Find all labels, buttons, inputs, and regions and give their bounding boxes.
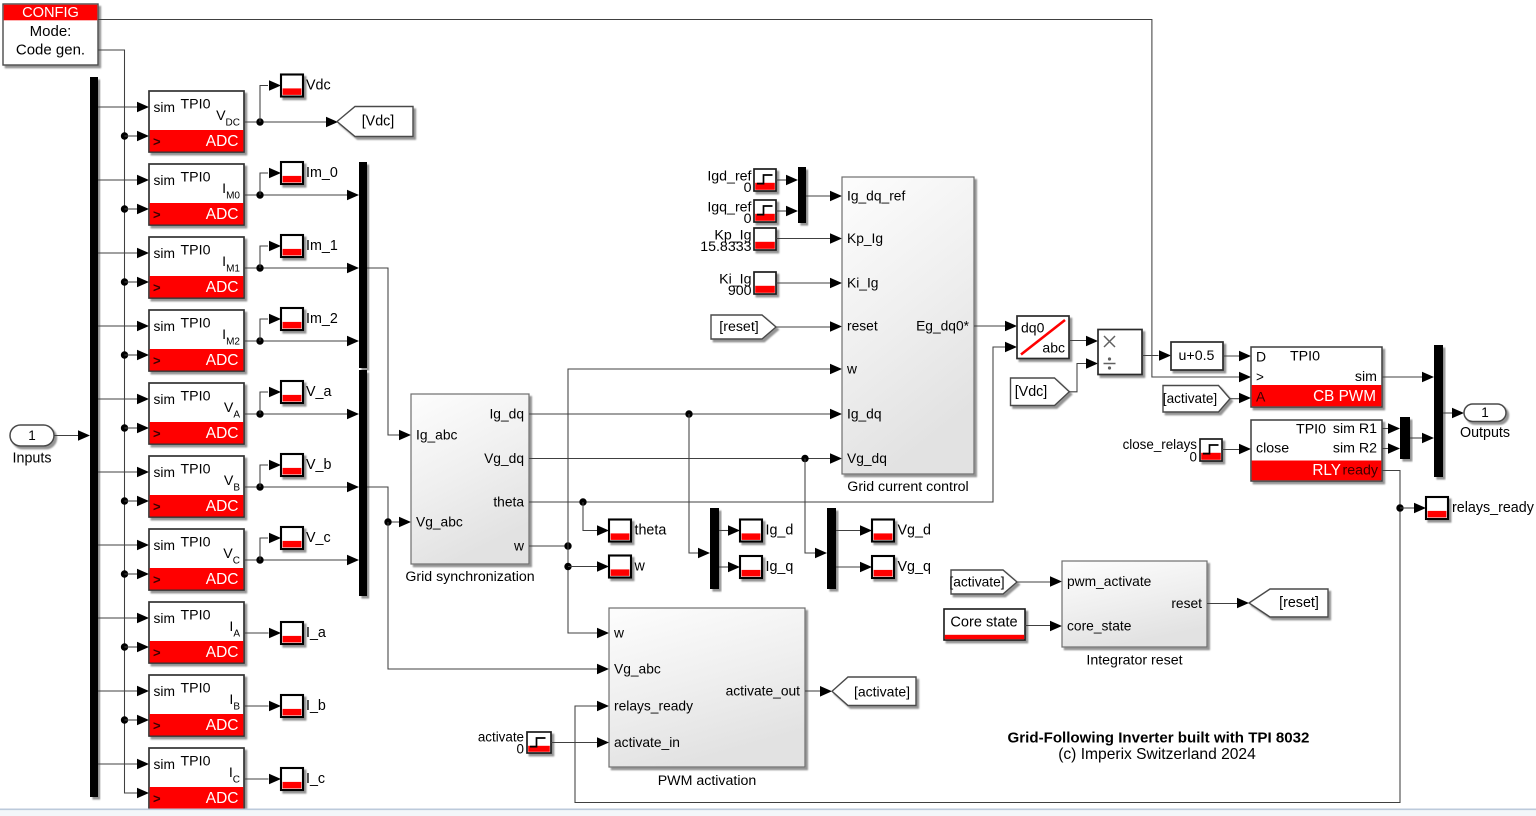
wire CONFIG to CB PWM trigger <box>98 20 1240 378</box>
scope V_a <box>281 381 303 403</box>
goto tag [reset] <box>1249 589 1328 617</box>
junction dot trigger ADC VDC <box>121 132 128 139</box>
bias block u+0.5 <box>1171 342 1223 370</box>
svg-text:Mode:: Mode: <box>30 23 72 40</box>
scope V_b <box>281 454 303 476</box>
svg-text:Ig_abc: Ig_abc <box>416 428 458 443</box>
scope Im_1 <box>281 235 303 257</box>
scope I_b <box>281 695 303 717</box>
svg-text:Code gen.: Code gen. <box>16 42 85 59</box>
wire ADC IA output to scope <box>244 632 269 634</box>
svg-text:Im_1: Im_1 <box>306 238 338 254</box>
constant Kp_Ig <box>754 228 776 250</box>
wire theta to dq0-abc transform <box>529 347 1006 502</box>
svg-text:sim: sim <box>154 100 175 115</box>
wire ready to scope <box>1400 507 1415 509</box>
wire ADC VC output to bus and scope <box>244 559 347 561</box>
svg-text:TPI0: TPI0 <box>1296 422 1326 438</box>
svg-text:[activate]: [activate] <box>854 683 910 699</box>
svg-text:sim: sim <box>154 173 175 188</box>
svg-text:V_c: V_c <box>306 530 331 546</box>
svg-text:[activate]: [activate] <box>949 575 1004 590</box>
wire Ig_dq to Grid current control <box>529 413 831 415</box>
bus creator bar voltages <box>359 370 367 596</box>
svg-text:[reset]: [reset] <box>719 319 758 335</box>
svg-text:ready: ready <box>1343 463 1379 479</box>
wire CB PWM sim to Outputs bus <box>1382 376 1423 378</box>
wire voltages bus to Grid synchronization Vg_abc <box>367 487 400 522</box>
svg-text:Eg_dq0*: Eg_dq0* <box>916 319 970 334</box>
svg-text:Vg_q: Vg_q <box>898 559 931 575</box>
scope Vdc <box>281 75 303 97</box>
step block close_relays <box>1200 439 1222 461</box>
svg-text:>: > <box>153 718 161 733</box>
svg-text:>: > <box>153 572 161 587</box>
RLY block <box>1251 420 1382 481</box>
step block Igq_ref <box>754 200 776 222</box>
wire close_relays to RLY <box>1222 449 1240 451</box>
svg-text:sim: sim <box>154 465 175 480</box>
svg-text:ADC: ADC <box>206 133 239 150</box>
svg-text:>: > <box>153 499 161 514</box>
junction dot trigger ADC IA <box>121 643 128 650</box>
svg-text:ADC: ADC <box>206 717 239 734</box>
wire bus to ADC IM0 sim input <box>98 179 139 181</box>
ADC block IC <box>149 748 244 809</box>
svg-text:TPI0: TPI0 <box>181 681 211 697</box>
svg-text:Outputs: Outputs <box>1460 425 1510 441</box>
scope relays_ready <box>1426 497 1448 519</box>
scope w <box>609 556 631 578</box>
svg-text:RLY: RLY <box>1312 462 1341 479</box>
scope Ig_d <box>740 520 762 542</box>
svg-text:I_a: I_a <box>306 625 326 641</box>
wire RLY ready to scope and PWM activation <box>575 471 1400 803</box>
svg-text:Grid-Following Inverter built: Grid-Following Inverter built with TPI 8… <box>1008 730 1310 747</box>
wire ADC IB output to scope <box>244 705 269 707</box>
svg-text:sim: sim <box>154 684 175 699</box>
svg-text:Im_2: Im_2 <box>306 311 338 327</box>
bottom status strip <box>0 810 1536 816</box>
wire bus to ADC VA sim input <box>98 398 139 400</box>
svg-text:0: 0 <box>744 180 752 196</box>
svg-text:sim: sim <box>154 319 175 334</box>
ADC block IB <box>149 675 244 736</box>
svg-text:Ki_Ig: Ki_Ig <box>847 276 878 291</box>
wire Vg_d to scope <box>836 530 861 532</box>
subsystem PWM activation <box>609 608 805 767</box>
wire ADC IM0 output to bus and scope <box>244 194 347 196</box>
svg-text:0: 0 <box>1190 450 1197 465</box>
junction dot w main <box>564 542 571 549</box>
scope I_a <box>281 622 303 644</box>
from tag [activate] for CB PWM <box>1163 386 1230 413</box>
svg-text:V_a: V_a <box>306 384 331 400</box>
junction dot trigger ADC IM0 <box>121 205 128 212</box>
wire relay bus to Outputs bus <box>1410 437 1423 439</box>
subsystem Integrator reset <box>1062 561 1207 647</box>
product block multiply-divide <box>1098 330 1142 375</box>
wire bus to ADC IC sim input <box>98 763 139 765</box>
svg-text:PWM activation: PWM activation <box>658 773 757 789</box>
wire bus to ADC IM1 sim input <box>98 252 139 254</box>
svg-text:TPI0: TPI0 <box>181 535 211 551</box>
svg-text:>: > <box>153 134 161 149</box>
wire activate to PWM activation <box>551 742 598 744</box>
wire Vg_dq branch to selector <box>805 459 816 554</box>
junction dot trigger ADC IB <box>121 716 128 723</box>
svg-text:sim: sim <box>154 538 175 553</box>
svg-text:sim: sim <box>154 611 175 626</box>
junction dot trigger ADC IM1 <box>121 278 128 285</box>
svg-text:relays_ready: relays_ready <box>614 699 693 714</box>
svg-text:Vg_dq: Vg_dq <box>847 451 887 466</box>
svg-text:>: > <box>153 426 161 441</box>
CB PWM block <box>1251 347 1382 407</box>
svg-text:Vg_dq: Vg_dq <box>484 451 524 466</box>
wire Ig_d to scope <box>719 530 729 532</box>
ADC block VB <box>149 456 244 517</box>
svg-text:(c) Imperix Switzerland 2024: (c) Imperix Switzerland 2024 <box>1058 746 1256 763</box>
goto tag [Vdc] <box>337 107 413 137</box>
svg-text:activate_out: activate_out <box>726 684 801 699</box>
wire dq0-abc to product <box>1069 340 1087 342</box>
svg-text:[Vdc]: [Vdc] <box>1015 384 1048 400</box>
svg-text:ADC: ADC <box>206 571 239 588</box>
subsystem Grid current control <box>842 177 974 474</box>
junction dot trigger ADC IM2 <box>121 351 128 358</box>
svg-text:Core state: Core state <box>950 615 1017 631</box>
bus selector bar Vg <box>827 508 836 589</box>
output port 1 Outputs <box>1464 404 1506 422</box>
wire reset to goto tag <box>1207 603 1238 605</box>
junction dot theta <box>579 498 586 505</box>
wire w to Grid current control <box>568 369 831 546</box>
svg-text:sim R2: sim R2 <box>1333 441 1377 457</box>
svg-text:CONFIG: CONFIG <box>22 5 79 21</box>
svg-text:Vg_d: Vg_d <box>898 523 931 539</box>
svg-text:TPI0: TPI0 <box>181 608 211 624</box>
input port 1 Inputs <box>10 425 54 446</box>
wire bus to ADC VC sim input <box>98 544 139 546</box>
bus creator bar relays <box>1400 417 1410 459</box>
svg-text:Vg_abc: Vg_abc <box>614 662 661 677</box>
wire Ig_dq branch to selector <box>689 414 699 553</box>
svg-text:close_relays: close_relays <box>1123 437 1198 452</box>
svg-text:Kp_Ig: Kp_Ig <box>847 231 883 246</box>
svg-text:Inputs: Inputs <box>13 451 52 467</box>
wire Ig_q to scope <box>719 566 729 568</box>
svg-text:>: > <box>1256 370 1264 385</box>
wire bus to ADC IM2 sim input <box>98 325 139 327</box>
svg-text:u+0.5: u+0.5 <box>1179 348 1215 364</box>
scope Vg_d <box>872 520 894 542</box>
ADC block VA <box>149 383 244 444</box>
svg-text:Grid synchronization: Grid synchronization <box>405 569 534 585</box>
svg-text:Ig_q: Ig_q <box>766 559 794 575</box>
wire sim R2 to relay bus <box>1382 448 1389 450</box>
bus creator bar Ig_dq_ref <box>798 167 806 223</box>
svg-text:w: w <box>634 559 646 575</box>
wire activate_out to goto tag <box>805 690 821 692</box>
wire ADC V_DC output to goto tag and scope <box>244 121 327 123</box>
CONFIG block <box>3 4 98 65</box>
wire Kp_Ig to Grid current control <box>776 238 831 240</box>
wire Vg_abc branch to PWM activation <box>388 522 598 669</box>
bus creator bar Outputs <box>1434 345 1443 477</box>
svg-text:w: w <box>513 539 524 554</box>
svg-text:sim: sim <box>1355 369 1377 385</box>
svg-text:TPI0: TPI0 <box>181 170 211 186</box>
from tag [Vdc] <box>1011 378 1070 406</box>
ADC block IM0 <box>149 164 244 225</box>
svg-text:ADC: ADC <box>206 352 239 369</box>
svg-text:ADC: ADC <box>206 279 239 296</box>
svg-text:D: D <box>1256 349 1266 365</box>
svg-text:[activate]: [activate] <box>1163 391 1217 406</box>
ADC block VDC <box>149 91 244 152</box>
svg-text:TPI0: TPI0 <box>1290 349 1320 365</box>
svg-text:Ig_dq: Ig_dq <box>489 407 524 422</box>
bus creator bar currents <box>359 162 367 368</box>
svg-text:TPI0: TPI0 <box>181 97 211 113</box>
junction dot trigger ADC VA <box>121 424 128 431</box>
svg-text:core_state: core_state <box>1067 619 1132 634</box>
ADC block IA <box>149 602 244 663</box>
svg-text:ADC: ADC <box>206 790 239 807</box>
svg-text:reset: reset <box>1171 596 1202 611</box>
wire ADC VB output to bus and scope <box>244 486 347 488</box>
svg-text:>: > <box>153 280 161 295</box>
junction dot Vg_dq <box>801 455 808 462</box>
wire Vg_dq to Grid current control <box>529 458 831 460</box>
scope Im_2 <box>281 308 303 330</box>
wire reset to Grid current control <box>776 326 831 328</box>
junction dot ready <box>1396 504 1403 511</box>
svg-text:I_b: I_b <box>306 698 326 714</box>
wire CONFIG to ADC trigger trunk <box>98 50 138 793</box>
svg-text:abc: abc <box>1042 340 1065 356</box>
svg-text:Im_0: Im_0 <box>306 165 338 181</box>
svg-text:TPI0: TPI0 <box>181 316 211 332</box>
svg-text:Ig_dq_ref: Ig_dq_ref <box>847 189 905 204</box>
svg-text:theta: theta <box>493 495 524 510</box>
svg-text:relays_ready: relays_ready <box>1452 500 1535 516</box>
svg-text:TPI0: TPI0 <box>181 754 211 770</box>
svg-text:w: w <box>846 362 857 377</box>
wire activate to pwm_activate <box>1017 581 1051 583</box>
junction dot trigger ADC VC <box>121 570 128 577</box>
svg-text:Integrator reset: Integrator reset <box>1086 653 1182 669</box>
svg-text:ADC: ADC <box>206 644 239 661</box>
svg-text:Ig_dq: Ig_dq <box>847 407 882 422</box>
svg-text:Vdc: Vdc <box>306 78 331 94</box>
svg-text:Ig_d: Ig_d <box>766 523 794 539</box>
junction dot Ig_dq <box>685 410 692 417</box>
svg-text:1: 1 <box>1481 405 1489 420</box>
wire product to u+0.5 <box>1142 355 1159 357</box>
svg-text:ADC: ADC <box>206 206 239 223</box>
wire bus to ADC VB sim input <box>98 471 139 473</box>
svg-text:ADC: ADC <box>206 498 239 515</box>
svg-text:900: 900 <box>728 283 752 299</box>
wire u+0.5 to CB PWM D <box>1223 355 1240 357</box>
scope Ig_q <box>740 556 762 578</box>
svg-text:A: A <box>1256 389 1266 405</box>
subsystem Grid synchronization <box>411 394 529 564</box>
step block Igd_ref <box>754 169 776 191</box>
wire bus to ADC IB sim input <box>98 690 139 692</box>
svg-text:close: close <box>1256 441 1289 457</box>
scope Vg_q <box>872 556 894 578</box>
wire sim R1 to relay bus <box>1382 428 1389 430</box>
svg-text:V_b: V_b <box>306 457 331 473</box>
svg-text:TPI0: TPI0 <box>181 389 211 405</box>
scope V_c <box>281 527 303 549</box>
transform block dq0-abc <box>1017 316 1069 359</box>
wire bus to ADC VDC sim input <box>98 106 139 108</box>
svg-text:I_c: I_c <box>306 771 325 787</box>
wire activate to CB PWM A <box>1230 398 1240 400</box>
wire theta branch to scope <box>583 502 598 531</box>
from tag [activate] for Integrator reset <box>951 570 1017 594</box>
bus selector bar (Inputs) <box>90 77 98 797</box>
wire ADC IM2 output to bus and scope <box>244 340 347 342</box>
wire ADC VA output to bus and scope <box>244 413 347 415</box>
junction dot Vg_abc <box>384 518 391 525</box>
wire Ig_dq_ref to Grid current control <box>806 195 831 197</box>
from tag [reset] <box>711 315 776 339</box>
constant Ki_Ig <box>754 272 776 294</box>
ADC block VC <box>149 529 244 590</box>
wire Vdc to product divide input <box>1069 364 1086 392</box>
svg-text:w: w <box>613 626 624 641</box>
svg-text:theta: theta <box>635 523 667 539</box>
svg-text:0: 0 <box>744 211 752 227</box>
wire w output <box>529 545 568 547</box>
wire bus to Outputs port <box>1443 412 1453 414</box>
wire Igq_ref to bus <box>776 210 787 212</box>
svg-text:>: > <box>153 791 161 806</box>
step block activate <box>527 732 551 753</box>
wire Ki_Ig to Grid current control <box>776 282 831 284</box>
svg-text:0: 0 <box>517 742 524 757</box>
ADC block IM1 <box>149 237 244 298</box>
svg-text:>: > <box>153 645 161 660</box>
svg-text:>: > <box>153 353 161 368</box>
svg-text:reset: reset <box>847 319 878 334</box>
svg-text:sim: sim <box>154 246 175 261</box>
goto tag [activate] <box>832 677 916 706</box>
bus selector bar Ig <box>710 508 719 589</box>
scope Im_0 <box>281 162 303 184</box>
wire Inputs to bus selector <box>54 435 79 437</box>
wire currents bus to Grid synchronization Ig_abc <box>367 268 400 435</box>
svg-text:sim: sim <box>154 757 175 772</box>
ADC block IM2 <box>149 310 244 371</box>
svg-text:activate_in: activate_in <box>614 735 680 750</box>
svg-text:>: > <box>153 207 161 222</box>
wire w branch to scope <box>568 566 598 568</box>
svg-text:sim R1: sim R1 <box>1333 421 1377 437</box>
wire w down branch <box>568 546 598 633</box>
svg-text:[reset]: [reset] <box>1279 595 1319 611</box>
svg-text:1: 1 <box>28 428 36 443</box>
svg-text:15.8333: 15.8333 <box>700 239 751 255</box>
Core state block <box>944 609 1025 640</box>
svg-text:Grid current control: Grid current control <box>847 479 968 495</box>
wire ADC IC output to scope <box>244 778 269 780</box>
svg-text:[Vdc]: [Vdc] <box>362 114 395 130</box>
svg-text:Vg_abc: Vg_abc <box>416 515 463 530</box>
wire ADC IM1 output to bus and scope <box>244 267 347 269</box>
wire Core state to core_state <box>1025 625 1051 627</box>
svg-text:TPI0: TPI0 <box>181 243 211 259</box>
wire Igd_ref to bus <box>776 179 787 181</box>
svg-text:pwm_activate: pwm_activate <box>1067 574 1152 589</box>
junction dot w scope <box>564 563 571 570</box>
svg-text:ADC: ADC <box>206 425 239 442</box>
wire bus to ADC IA sim input <box>98 617 139 619</box>
svg-text:TPI0: TPI0 <box>181 462 211 478</box>
scope I_c <box>281 768 303 790</box>
junction dot trigger ADC VB <box>121 497 128 504</box>
wire Vg_q to scope <box>836 566 861 568</box>
svg-text:sim: sim <box>154 392 175 407</box>
wire Eg_dq0* to dq0-abc <box>974 325 1006 327</box>
scope theta <box>609 520 631 542</box>
svg-text:dq0: dq0 <box>1021 320 1045 336</box>
svg-text:CB PWM: CB PWM <box>1313 388 1376 405</box>
